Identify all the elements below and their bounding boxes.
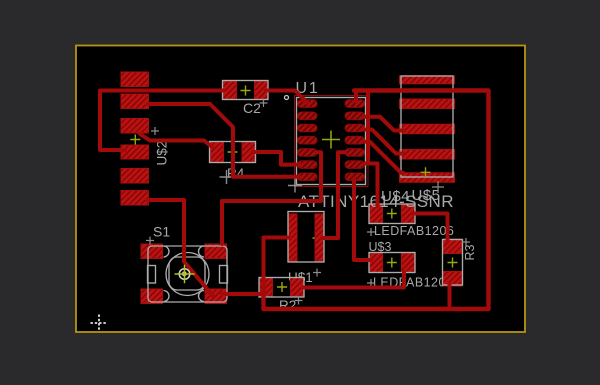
wire: R4 right pad to U1 pin6: [253, 152, 300, 165]
resistor R2 outline: [259, 278, 304, 298]
wire: U$2 pad4 to C2 left pad: [100, 91, 223, 151]
board outline (dimension): [76, 46, 525, 333]
board canvas: [76, 46, 525, 333]
text origin cross U$5: [432, 181, 444, 193]
text origin cross ATTINY: [288, 179, 302, 193]
svg-text:U$2: U$2: [155, 141, 170, 166]
wire: R3 bottom pad down to bottom rail: [448, 284, 452, 309]
LED U$3 outline: [369, 253, 415, 273]
resistor R2 pads: [260, 278, 304, 296]
origin cross LED U$4: [387, 209, 397, 219]
capacitor U$1 outline: [288, 212, 324, 263]
IC U1 outline: [297, 98, 366, 185]
svg-text:LEDFAB1206: LEDFAB1206: [374, 224, 454, 238]
wire: U1 pin8 down to LED U$3 left pad: [354, 179, 371, 260]
wire: U1 pin14 up to top rail: [354, 91, 358, 102]
wire: R2 right pad to LED U$3 right pad: [303, 272, 404, 288]
IC U1 courtyard: [295, 96, 369, 187]
svg-text:R3: R3: [463, 244, 477, 260]
switch S1 center marker: [179, 269, 190, 280]
origin cross U$1: [313, 233, 323, 243]
text origin cross U$2: [151, 127, 159, 135]
connector U$4 U$5 outline: [401, 76, 453, 177]
origin cross R3: [448, 258, 458, 268]
wire: U1 pin10 down to capacitor U$1 right pad: [322, 152, 345, 238]
wire: U$2 pad2 to U1 pin7: [147, 104, 299, 177]
wire: top rail to right rail to bottom rail: [264, 91, 489, 310]
origin cross C2: [241, 86, 251, 96]
resistor R3 outline: [443, 240, 463, 286]
LED U$3 pads: [370, 253, 415, 272]
wire: LED U$4 right pad to R3 top pad: [413, 214, 448, 242]
drawing origin dashed cross: [91, 315, 108, 332]
text origin cross R4 value: [220, 170, 234, 184]
wire: S1 bottom-right pad to R2 left pad: [222, 292, 260, 296]
svg-text:U$4: U$4: [381, 188, 410, 205]
text origin cross C2: [260, 99, 268, 107]
capacitor U$1 pads: [289, 214, 324, 261]
wire: C2 right pad to U1 pin1: [266, 91, 307, 103]
origin cross U1: [322, 131, 340, 149]
wire: U1 pin9 stub: [365, 162, 368, 166]
origin cross U$2: [130, 135, 140, 145]
wire: R2 left pad up to capacitor U$1 left pad: [264, 238, 291, 296]
wire: U1 pin12 to connector pad4: [364, 130, 403, 154]
switch S1 outline: [148, 246, 228, 302]
capacitor C2 pads: [223, 81, 268, 99]
origin cross LED U$3: [387, 258, 397, 268]
text origin cross LEDFAB2: [367, 279, 375, 287]
text origin cross R2: [295, 297, 303, 305]
origin cross R2: [277, 282, 287, 292]
text origin cross U$1: [313, 269, 321, 277]
wire: U$2 pad6 to S1 bottom-right pad: [147, 200, 213, 296]
wire: S1 top-right pad to U1 pin5: [222, 152, 321, 244]
capacitor C2 outline: [223, 81, 269, 100]
via marker near U1: [285, 96, 289, 100]
svg-text:C2: C2: [243, 100, 261, 116]
origin cross R4: [228, 147, 238, 157]
resistor R3 pads: [443, 239, 462, 286]
resistor R4 pads: [211, 142, 256, 162]
LED U$4 pads: [370, 205, 415, 224]
switch S1 pads: [141, 244, 227, 304]
wire: top rail branch down to U1 pin9 and LED U$4 left pad: [368, 92, 378, 206]
IC U1 pads (SOIC-14): [298, 100, 365, 181]
text origin cross R3: [462, 238, 470, 246]
svg-text:U$3: U$3: [369, 240, 392, 254]
wire: U1 pin13 to connector pad3: [364, 117, 403, 131]
svg-text:U$5: U$5: [412, 187, 441, 204]
connector U$2 pads: [121, 72, 149, 205]
LED U$4 outline: [369, 204, 415, 224]
wire: U1 pin11 to connector pad5: [364, 142, 403, 173]
text origin cross LEDFAB1: [367, 228, 375, 236]
origin cross connector U$4/U$5: [421, 167, 431, 177]
resistor R4 outline: [210, 142, 256, 163]
connector U$4 U$5 pads: [400, 76, 455, 183]
svg-text:S1: S1: [153, 224, 170, 240]
wire: U$2 pad3 to R4 left pad: [140, 134, 212, 147]
text origin cross S1: [146, 237, 154, 245]
